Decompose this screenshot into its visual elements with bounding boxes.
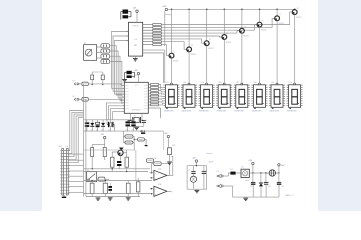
svg-text:K3: K3 — [73, 81, 75, 83]
svg-text:C5: C5 — [132, 129, 134, 131]
svg-text:S5: S5 — [84, 43, 86, 45]
svg-text:+5V: +5V — [162, 6, 166, 8]
svg-text:K4: K4 — [73, 96, 75, 98]
svg-text:o: o — [172, 191, 173, 193]
svg-text:BC557: BC557 — [226, 42, 231, 44]
svg-text:K5: K5 — [66, 146, 68, 148]
svg-text:LD5: LD5 — [236, 82, 239, 84]
svg-text:BC557: BC557 — [261, 29, 266, 31]
svg-text:X1: X1 — [134, 115, 136, 117]
svg-text:KINGB/TDSR: KINGB/TDSR — [287, 111, 297, 113]
svg-text:D2: D2 — [101, 129, 103, 131]
svg-text:R16: R16 — [154, 158, 157, 160]
svg-text:LD7: LD7 — [271, 82, 274, 84]
svg-text:LD8: LD8 — [289, 82, 292, 84]
svg-text:BC557: BC557 — [244, 36, 249, 38]
svg-text:C3: C3 — [96, 129, 98, 131]
svg-text:C12: C12 — [282, 186, 285, 188]
svg-text:C11: C11 — [268, 186, 271, 188]
svg-text:LD4: LD4 — [218, 82, 221, 84]
svg-text:IC5: IC5 — [241, 167, 244, 169]
svg-text:C8: C8 — [205, 170, 207, 172]
svg-text:LD6: LD6 — [254, 82, 257, 84]
svg-text:C9: C9 — [145, 120, 147, 122]
svg-text:C4: C4 — [126, 129, 128, 131]
svg-text:IC6: IC6 — [134, 39, 137, 41]
svg-text:BC557: BC557 — [296, 17, 301, 19]
svg-text:78L05: 78L05 — [245, 180, 249, 182]
svg-text:IC3a: IC3a — [158, 169, 161, 171]
svg-text:T1: T1 — [173, 51, 175, 53]
svg-text:BC557: BC557 — [208, 48, 213, 50]
svg-text:IC1: IC1 — [135, 85, 138, 87]
svg-text:KINGB/TDSR: KINGB/TDSR — [252, 111, 262, 113]
svg-text:LD1: LD1 — [166, 82, 169, 84]
svg-text:KINGB/TDSR: KINGB/TDSR — [234, 111, 244, 113]
svg-text:KINGB/TDSR: KINGB/TDSR — [199, 111, 209, 113]
svg-text:KINGB/TDSR: KINGB/TDSR — [217, 111, 227, 113]
svg-text:T6: T6 — [261, 20, 263, 22]
svg-text:C7: C7 — [189, 170, 191, 172]
svg-text:KINGB/TDSR: KINGB/TDSR — [270, 111, 280, 113]
svg-text:D1: D1 — [91, 129, 93, 131]
svg-text:T8: T8 — [297, 8, 299, 10]
svg-text:BC557: BC557 — [279, 23, 284, 25]
svg-text:K1: K1 — [217, 171, 219, 173]
svg-text:LD2: LD2 — [183, 82, 186, 84]
svg-text:KINGB/TDSR: KINGB/TDSR — [164, 111, 174, 113]
svg-text:T7: T7 — [279, 14, 281, 16]
svg-text:C10: C10 — [250, 186, 253, 188]
svg-text:T3: T3 — [209, 39, 211, 41]
svg-text:T2: T2 — [191, 45, 193, 47]
svg-text:R20: R20 — [173, 145, 176, 147]
svg-text:KINGB/TDSR: KINGB/TDSR — [182, 111, 192, 113]
svg-text:X2: X2 — [108, 129, 110, 131]
svg-text:T4: T4 — [226, 33, 228, 35]
svg-text:BC557: BC557 — [191, 54, 196, 56]
svg-text:T5: T5 — [244, 27, 246, 29]
svg-text:BC557: BC557 — [173, 60, 178, 62]
svg-text:IC3b: IC3b — [158, 184, 161, 186]
svg-text:D12: D12 — [230, 169, 233, 171]
svg-text:ICM7218: ICM7218 — [132, 26, 138, 28]
svg-text:9910 - 7: 9910 - 7 — [286, 195, 295, 197]
svg-text:LD3: LD3 — [201, 82, 204, 84]
